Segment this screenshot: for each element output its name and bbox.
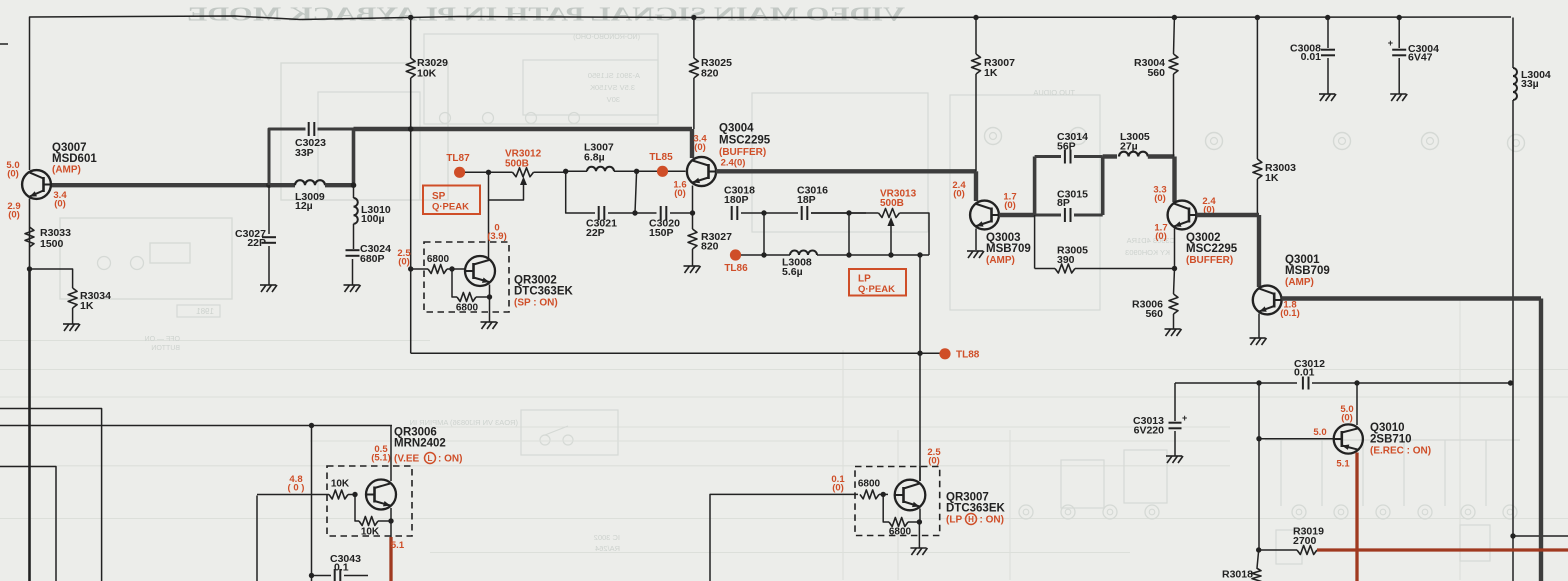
svg-text:IC 3002: IC 3002 [594,533,620,542]
wire QR3006 collector up [390,426,392,482]
svg-text:LP: LP [858,274,871,285]
wire thick Q3002 output [1197,213,1260,217]
svg-text:TL85: TL85 [649,152,673,163]
wire switch branch to TL88 [411,352,945,354]
svg-text:5.1: 5.1 [391,540,405,551]
wire Q3010 collector [1356,383,1358,425]
svg-text:5.0: 5.0 [1313,427,1326,438]
transistor QR3007 [895,480,926,511]
wire R3029 down to switch branch [410,78,412,353]
wire left bus down [28,269,31,581]
ghost small box 1981 [177,305,220,317]
svg-text:MSB709: MSB709 [1285,265,1330,277]
svg-text:500B: 500B [505,159,529,170]
svg-text:TL86: TL86 [724,263,748,274]
svg-text:6V220: 6V220 [1134,425,1165,437]
svg-text:6800: 6800 [456,303,479,314]
svg-text:C3903 4D1RA: C3903 4D1RA [1127,236,1175,245]
ghost box C [424,34,658,124]
svg-text:56P: 56P [1057,141,1076,153]
capacitor C3024 [346,249,360,251]
resistor R3029 [410,18,412,59]
wire down to TL88 line [919,255,921,481]
ghost box D [752,93,928,232]
svg-text:VIDEO MAIN SIGNAL PATH IN PLAY: VIDEO MAIN SIGNAL PATH IN PLAYBACK MODE [187,4,905,26]
svg-text:10K: 10K [361,527,380,538]
wire bias rail y425 [0,425,392,427]
wire thick into Q3002 [1172,157,1176,203]
svg-text:(0): (0) [7,168,19,179]
svg-text:6.8µ: 6.8µ [584,152,605,164]
ghost box A [281,63,448,200]
variable resistor VR3013 [879,209,900,218]
wire thick filter line y129 [354,127,693,131]
wire right edge vertical [1512,18,1514,69]
capacitor C3008 [1327,18,1329,49]
svg-text:6800: 6800 [889,527,912,538]
svg-text:(LP: (LP [946,515,962,526]
wire L3004 down right edge [1512,100,1514,581]
SP Q-PEAK box [423,186,480,215]
ground Q3003 [967,250,983,252]
inductor L3005 thick path [1103,154,1117,158]
switch QR3002 dashed box [424,242,509,312]
node L3009 left [266,182,272,188]
wire VR3013 right loop [900,213,930,255]
capacitor C3004 electrolytic [1398,18,1400,49]
wire Q3003 emitter to ground [975,229,977,251]
svg-text:SP: SP [432,191,446,202]
wire thick Q3003 output [999,213,1035,217]
svg-text:MSC2295: MSC2295 [719,135,771,147]
wire VR3012 to L3007 [534,171,566,173]
wire C3012 line [1175,382,1297,384]
svg-text:(0): (0) [694,142,706,153]
svg-text:(0): (0) [1004,200,1016,211]
svg-text:33µ: 33µ [1521,78,1539,90]
svg-text:TUO OIDUA: TUO OIDUA [1033,88,1075,97]
wire left frame lines [0,409,102,581]
resistor R3019 [1297,546,1317,555]
svg-text:(V.EE: (V.EE [394,454,420,465]
wire mid node up [635,171,637,213]
transistor Q3004 [687,157,716,186]
svg-text:150P: 150P [649,227,674,239]
svg-text:(AMP): (AMP) [986,255,1015,266]
svg-text:22P: 22P [586,227,605,239]
wire C3043 branch [311,426,313,581]
capacitor C3018 [731,206,733,220]
svg-text:820: 820 [701,241,719,253]
svg-text:(E.REC : ON): (E.REC : ON) [1370,446,1431,457]
svg-text:(0): (0) [674,188,686,199]
svg-text:680P: 680P [360,253,385,265]
test point TL87 [454,167,465,178]
resistor 10K QR3006 base [329,490,348,499]
wire C3021 branch down [566,171,595,213]
transistor Q3002 [1168,201,1197,230]
resistor 10K QR3006 feedback [359,517,378,526]
svg-text:R3018: R3018 [1222,569,1253,581]
svg-text:18P: 18P [797,194,816,206]
svg-text:560: 560 [1147,67,1165,79]
ground C3013 [1166,455,1182,457]
svg-text:MSC2295: MSC2295 [1186,243,1238,255]
inductor L3010 branch [353,185,355,198]
ground QR3007 [918,522,920,548]
svg-text:180P: 180P [724,194,749,206]
ground QR3002 [489,297,491,322]
svg-text:33P: 33P [295,147,314,159]
ground C3024 [344,284,360,286]
ghost small mirrored caption [573,34,640,41]
resistor R3033 [25,227,34,247]
svg-text:500B: 500B [880,198,904,209]
svg-text:(5.1): (5.1) [371,452,391,463]
wire TL87 to VR3012 [465,171,508,173]
ground R3034 [72,308,74,324]
resistor R3025 [693,18,695,59]
ghost horizontal y441 [310,440,1230,442]
svg-text:H: H [968,515,974,524]
transistor QR3006 [366,480,396,510]
VR3012 wiper arm [489,172,524,200]
svg-text:MSD601: MSD601 [52,153,97,165]
ground C3008 [1319,93,1335,95]
switch QR3007 dashed box [855,467,940,536]
ghost pin circles row [440,113,451,124]
wire thick into Q3004 [690,129,694,158]
svg-text:0.01: 0.01 [1294,367,1315,379]
LP Q-PEAK box [849,269,906,296]
inductor L3004 [1513,68,1517,100]
svg-text:10K: 10K [417,68,437,80]
wire QR3002 collector riser [488,200,490,258]
svg-text:BUTTON: BUTTON [151,345,180,352]
wire QR3006 input [256,496,258,581]
wire branch to R3034 [30,269,73,288]
svg-text:(0): (0) [928,455,940,466]
svg-text:OFF — ON: OFF — ON [145,336,180,343]
ghost box E [950,95,1100,310]
svg-text:KY KOH0903: KY KOH0903 [1125,248,1170,257]
inductor L3008 [790,251,817,256]
svg-text:L: L [428,454,433,463]
wire Q3007 emitter down [29,199,31,270]
wire thick Q3001 output [1282,296,1542,300]
svg-text:Q·PEAK: Q·PEAK [432,202,469,213]
scan edge tick top left [0,43,8,45]
variable resistor VR3012 [513,168,534,177]
wire top supply rail [30,16,1512,170]
svg-text:30V: 30V [607,95,620,104]
ghost mirrored page title [187,4,905,26]
capacitor C3016 [801,206,803,220]
resistor R3007 [975,18,977,55]
svg-text:( 0 ): ( 0 ) [288,482,305,493]
svg-text:10K: 10K [331,479,350,490]
red wire Q3010 emitter [1355,453,1358,581]
svg-text:TL88: TL88 [956,350,980,361]
capacitor C3020 [660,206,662,220]
svg-text:1K: 1K [80,300,94,312]
svg-text:5.6µ: 5.6µ [782,266,803,278]
svg-text:+: + [1388,38,1393,48]
wire thick C3023 loop [269,129,306,185]
capacitor C3027 branch [268,185,270,234]
svg-text:1981: 1981 [196,307,214,316]
resistor R3027 [692,213,694,229]
ghost IC box left [60,218,232,299]
svg-text:6V47: 6V47 [1408,52,1433,64]
svg-text:1K: 1K [1265,172,1279,184]
svg-text:MSB709: MSB709 [986,243,1031,255]
test point TL88 [939,348,950,359]
wire Q3004 emitter down [692,186,694,214]
svg-text:820: 820 [701,68,719,80]
svg-text:(NO-RONOBO-OHO): (NO-RONOBO-OHO) [573,34,640,41]
resistor 6800 QR3002 base [428,265,447,274]
wire Q3001 emitter to ground [1258,314,1260,339]
transistor Q3001 [1253,286,1282,315]
capacitor C3023 [308,122,310,136]
svg-text:(0): (0) [1155,231,1167,242]
capacitor C3012 [1302,377,1304,390]
node R3034 branch [27,266,32,271]
wire Q3002 emitter down [1174,229,1176,269]
red wire E.REC from QR3006 [389,537,392,581]
wire QR3007 emitter down [919,509,921,523]
svg-text:2SB710: 2SB710 [1370,434,1412,446]
capacitor C3021 [598,206,600,220]
wire thick Q3004 output [716,169,976,173]
svg-text:(AMP): (AMP) [52,165,81,176]
svg-text:DTC363EK: DTC363EK [946,503,1005,515]
svg-text:12µ: 12µ [295,200,313,212]
svg-text:(0): (0) [54,198,66,209]
svg-text:MRN2402: MRN2402 [394,438,446,450]
ground C3027 [260,284,276,286]
resistor R3003 [1256,18,1258,160]
ghost verticals lower right [842,350,844,580]
svg-text:0.1: 0.1 [334,562,349,574]
ground R3006 [1165,328,1181,330]
svg-text:(0): (0) [398,256,410,267]
svg-text:0.01: 0.01 [1301,51,1322,63]
resistor 6800 QR3007 base [860,490,879,499]
ghost box B [318,92,420,200]
svg-text:DTC363EK: DTC363EK [514,286,573,298]
ground C3004 [1390,93,1406,95]
svg-text:RA/264: RA/264 [595,544,620,553]
wire TL85 to Q3004 base [668,170,686,172]
ghost jack circles [985,128,1002,145]
svg-text:(0): (0) [832,482,844,493]
wire lower LP path [741,254,790,256]
transistor Q3003 [970,201,999,230]
svg-text:(0): (0) [1341,412,1353,423]
ghost text bottom left [145,336,180,352]
svg-text:27µ: 27µ [1120,141,1138,153]
svg-text:Q·PEAK: Q·PEAK [858,284,895,295]
capacitor C3015 on lower branch [1035,214,1061,217]
svg-text:2.4(0): 2.4(0) [721,157,746,168]
capacitor C3043 [334,569,336,581]
wire Q3010 base [1259,438,1334,440]
svg-text:+: + [1182,413,1187,423]
svg-text:A-3901 SL1950: A-3901 SL1950 [588,71,640,80]
resistor R3034 [68,288,77,308]
wire thick down to Q3001 [1257,215,1261,287]
wire thick cap loop right [1101,157,1105,216]
wire thick down right side [1539,299,1543,581]
wire QR3002 emitter down [489,285,491,298]
switch QR3006 dashed box [327,466,412,536]
wire base bias vertical [1258,383,1260,550]
ground R3027 [684,265,700,267]
svg-text:(0): (0) [8,209,20,220]
svg-text:1500: 1500 [40,238,64,250]
svg-text:22P: 22P [247,237,266,249]
wire QR3007 collector up [919,466,921,481]
svg-text:3.5V SV150K: 3.5V SV150K [590,83,635,92]
svg-text:: ON): : ON) [980,515,1004,526]
svg-text:Q3004: Q3004 [719,123,754,135]
test point TL85 [657,166,668,177]
svg-text:(0.1): (0.1) [1280,308,1300,319]
svg-text:5.1: 5.1 [1336,459,1350,470]
svg-text:6800: 6800 [427,254,450,265]
wire branch right edge y536 [1513,535,1568,537]
svg-text:6800: 6800 [858,479,881,490]
inductor L3007 [566,170,587,172]
svg-text:Q3010: Q3010 [1370,422,1405,434]
ghost connector grid bottom right [1280,440,1282,506]
ghost mirrored text above QR3006 [410,418,518,427]
wire thick loop right vertical [352,129,356,186]
ghost relay box bottom middle [521,410,618,455]
svg-text:(BUFFER): (BUFFER) [1186,255,1233,266]
svg-text:TL87: TL87 [446,153,470,164]
svg-text:: ON): : ON) [438,454,462,465]
svg-text:(3.9): (3.9) [487,231,507,242]
transistor Q3010 PNP [1334,424,1363,453]
svg-text:8P: 8P [1057,197,1070,209]
junction dots on top rail [408,15,413,20]
wire thick main path from Q3007 [51,183,270,187]
resistor R3004 [1173,18,1176,55]
svg-text:(0): (0) [953,188,965,199]
capacitor C3013 electrolytic [1174,383,1176,421]
ground Q3001 [1250,337,1266,339]
ghost mirrored text audio out [1033,88,1075,97]
red wire REC bus [1317,548,1568,551]
svg-text:2700: 2700 [1293,535,1317,547]
svg-text:390: 390 [1057,254,1075,266]
svg-text:100µ: 100µ [361,213,385,225]
resistor 6800 QR3007 feedback [889,518,908,527]
resistor R3006 [1174,269,1175,295]
inductor L3009 on thick path [270,183,295,187]
wire thick cap loop left [1033,157,1037,216]
wire QR3007 input [710,494,858,581]
wire QR3006 emitter down [390,508,392,521]
svg-text:560: 560 [1145,308,1163,320]
capacitor C3014 on top branch [1035,155,1061,158]
svg-text:(SP : ON): (SP : ON) [514,298,558,309]
resistor R3005 branch [1034,215,1036,269]
transistor QR3002 [465,256,495,286]
resistor 6800 QR3002 feedback [457,293,476,302]
transistor Q3007 [22,170,51,199]
wire thick into Q3003 [974,171,978,201]
svg-text:(AMP): (AMP) [1285,277,1314,288]
svg-text:1K: 1K [984,67,998,79]
ghost horizontal bleed-through traces [0,369,1568,371]
svg-text:(0): (0) [1154,193,1166,204]
VR3013 wiper arm [890,223,892,255]
test point TL86 [730,249,741,260]
